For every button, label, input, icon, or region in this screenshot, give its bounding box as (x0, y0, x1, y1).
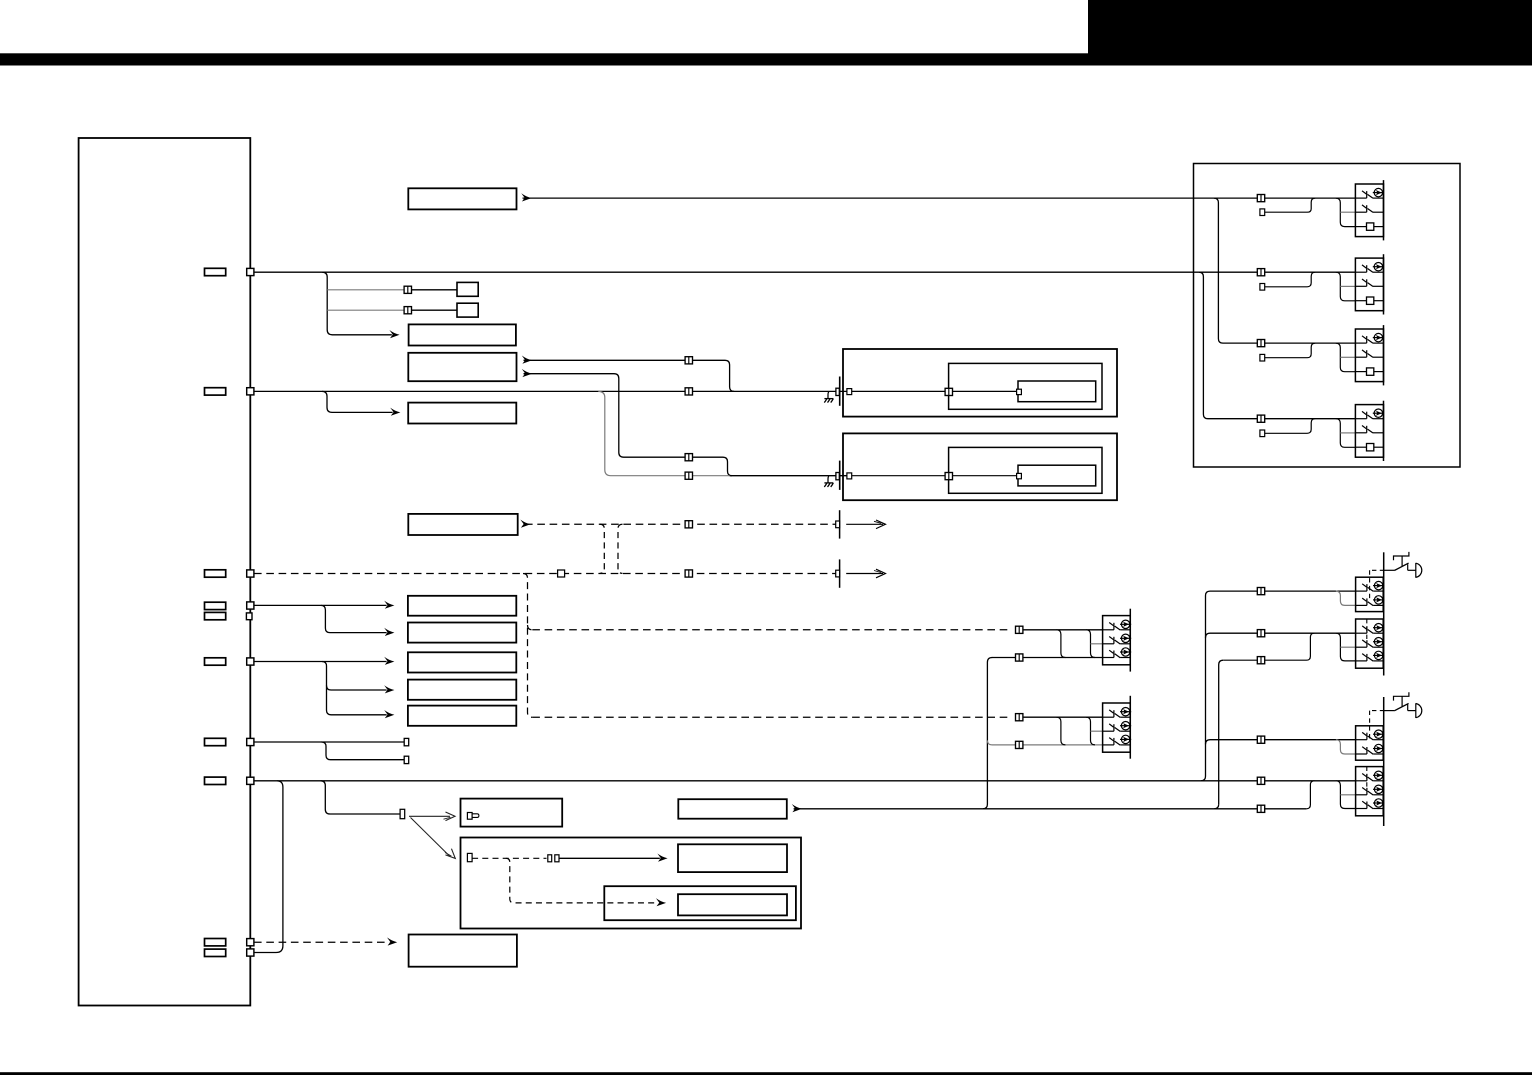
lock switch group S2 (1103, 703, 1132, 752)
connector on dashed y=524 (685, 521, 692, 528)
footer rule (0, 1072, 1532, 1075)
SB dashed link (472, 857, 546, 859)
M2 innermost box (1018, 465, 1096, 486)
callout box B1 (408, 596, 516, 616)
wire to box C (559, 857, 660, 859)
M1 internal wire (852, 390, 1017, 392)
M1 firewall bar (839, 377, 841, 406)
stub connector 7 (400, 809, 405, 818)
M2 internal wire (852, 475, 1017, 477)
M1 outer box (843, 349, 1117, 417)
pin label box 8b (205, 949, 226, 956)
branch drop at x=327 (322, 272, 392, 335)
lock switch group R2 (1356, 619, 1385, 668)
stub wire a (gray) (327, 289, 404, 291)
wire C from K4 (y=373) (524, 374, 686, 458)
M1 innermost pin (1017, 389, 1022, 394)
branch arrow to B4 (322, 662, 387, 691)
pin label box 3 (205, 570, 226, 577)
R3 connector (1257, 736, 1264, 743)
U2 pigtail connector (1260, 284, 1265, 291)
M1 inner box (949, 363, 1102, 409)
SB pin (467, 853, 472, 861)
M1 pin square (847, 389, 852, 395)
pin connector 2 (247, 388, 254, 395)
switch box a (457, 282, 478, 296)
branch from rail to door key cylinder connector (321, 781, 401, 814)
M2 pin square (847, 473, 852, 479)
branch drop of y=391 wire to gray run (598, 391, 729, 475)
dashed tie 1 between y=524 and y=573 (600, 524, 605, 573)
R1 connector (1257, 588, 1264, 595)
branch arrow to B2 (321, 605, 387, 632)
M1 ground (824, 392, 833, 403)
S2 bus bar (1129, 696, 1131, 759)
pin connector 8a (247, 939, 254, 946)
U1 branch to rows 2-3 (1336, 198, 1356, 227)
callout box K3 (408, 403, 516, 424)
box E (409, 935, 517, 967)
box D inner (678, 894, 787, 915)
S1 lower connector (1016, 654, 1023, 661)
pin connector 8b (247, 949, 254, 956)
S2 row1 feed (1023, 716, 1103, 718)
ground return riser x=987 (983, 658, 992, 809)
M2 inner box (949, 447, 1102, 493)
dashed wire from K5 (y=524) (525, 523, 837, 525)
wire: ECU pin1 main (y=272) (254, 271, 1355, 273)
R1 branch to row2 (1336, 591, 1356, 605)
callout box B2 (408, 623, 516, 643)
box A pin + tab (467, 813, 472, 820)
callout box B3 (408, 652, 516, 672)
U2 pigtail wire (1265, 272, 1316, 287)
pin label box 4b (205, 612, 226, 619)
dashed branch arc to y=629.7 (528, 625, 533, 630)
exit arrow y=524 (846, 523, 883, 525)
pin label box 8a (205, 939, 226, 946)
mech link dashes horn1 (1372, 569, 1384, 571)
unit U1 connector (1257, 195, 1264, 202)
lock switch group R4 (1356, 767, 1385, 816)
connector on wire C (685, 454, 692, 461)
M1 bar connector (836, 388, 839, 395)
R4 branch to rows 2-3 (1336, 781, 1356, 809)
R4 return merge from rail (1306, 781, 1314, 809)
connector on y=391 wire (685, 388, 692, 395)
S1 bus bar (1129, 609, 1131, 672)
S1 connector (dashed feed) (1016, 626, 1023, 633)
door lock actuator U2 (1355, 254, 1384, 314)
wire: K1 to door lock unit row (y=198) (523, 197, 1356, 199)
pin connector 6 (247, 738, 254, 745)
wire: connector to switch box a (412, 289, 457, 291)
title banner block (1088, 0, 1532, 54)
R2 connector (1257, 630, 1264, 637)
connector on stub b (404, 307, 411, 314)
key lock switch R3 (1356, 726, 1385, 760)
S1 tie 1 (1056, 630, 1065, 658)
door lock actuator U4 (1355, 401, 1384, 461)
M2 firewall bar (839, 461, 841, 490)
SB link connector halves (548, 855, 552, 862)
wire: ECU pin7 ground rail (y=780.8) (254, 780, 1356, 782)
dashed wire from ECU pin3 (y=573) (254, 573, 837, 575)
M1 inner connector (945, 388, 952, 395)
U3 pigtail connector (1260, 354, 1265, 361)
U4 pigtail wire (1265, 419, 1316, 434)
S2 lower connector (1016, 741, 1023, 748)
S2 tie 1 (1056, 717, 1065, 745)
R1R2 bus bar (1383, 552, 1385, 675)
S1 tie 2 + row2 stub (1086, 630, 1095, 658)
R3R4 bus bar (1383, 697, 1385, 826)
connector on gray run (685, 472, 692, 479)
wire: ECU pin2 (y=391) to module M1 (254, 390, 847, 392)
wire into module M2 (730, 475, 847, 477)
unit U3 connector (1257, 340, 1264, 347)
single connector on dashed y=573 (558, 570, 565, 577)
pin connector 7 (247, 777, 254, 784)
dashed drop at x=527 feeding lock switches (523, 574, 532, 718)
R2 branch to rows 2-3 (1336, 633, 1356, 661)
stub wire b (gray) (327, 309, 404, 311)
R1 main wire (1210, 590, 1356, 592)
connector on dashed y=573 (685, 570, 692, 577)
R4 connector (1257, 777, 1264, 784)
pin connector 4b (246, 613, 252, 620)
R2 return connector (1257, 657, 1264, 664)
bar connector y=573 (836, 570, 840, 577)
wire: connector to switch box b (412, 309, 457, 311)
pin connector 4a (247, 602, 254, 609)
return riser x=1218.7 (1219, 660, 1224, 804)
S2 tie 2 + row2 stub (1086, 717, 1095, 745)
stub connector 6a (404, 738, 409, 745)
link bar on dashed y=573 (839, 559, 841, 587)
riser from ECU pin8b to rail (254, 781, 283, 953)
U1 pigtail connector (1260, 209, 1265, 216)
arrowhead into box K2 (389, 330, 399, 338)
box C (678, 844, 787, 872)
connector on wire A (685, 357, 692, 364)
wire: ECU pin6 (y=742) (254, 741, 404, 743)
mech link dashes horn2 (1372, 710, 1384, 712)
dashed run to switch group S2 (532, 716, 1012, 718)
pin label box 2 (205, 388, 226, 395)
M2 bar connector (836, 473, 839, 480)
stub connector 6b (404, 756, 409, 763)
R3 branch to row2 (1336, 740, 1356, 754)
arrowhead on K1 wire (521, 193, 531, 201)
M2 innermost pin (1017, 473, 1022, 478)
callout box K2 (409, 324, 516, 345)
M2 inner connector (945, 473, 952, 480)
switch box b (457, 303, 478, 317)
pin label box 5 (205, 658, 226, 665)
pin label box 1 (205, 268, 226, 275)
door lock actuator U3 (1355, 325, 1384, 385)
R4 return connector (1257, 805, 1264, 812)
ECU box (79, 138, 251, 1006)
feeder riser x=1205.5 (1201, 591, 1210, 781)
box A (key sub switch) (461, 799, 563, 827)
branch arc to S2 lower wire (987, 740, 992, 745)
dashed tie 2 between y=524 and y=573 (618, 524, 623, 573)
actuator assembly outer box (1194, 164, 1461, 468)
header rule bar (0, 53, 1532, 65)
S1 lower wire (992, 657, 1103, 659)
U1 pigtail wire (1265, 198, 1316, 212)
callout box B4 (408, 680, 516, 700)
SB dashed branch to box D (506, 858, 659, 903)
fan arrow to box SB pin (411, 818, 451, 857)
pin label box 6 (205, 738, 226, 745)
R2 return wire + merge (1223, 633, 1314, 660)
exit arrow y=573 (846, 573, 883, 575)
return rail (y=808.8) from box F (794, 808, 1307, 810)
door lock actuator U1 (1355, 180, 1384, 240)
box D outer (604, 886, 796, 920)
R3 main wire (1210, 739, 1356, 741)
key cylinder + buzzer horn 1 (1384, 552, 1422, 578)
S1 row1 feed (1023, 629, 1103, 631)
mech link dashes R2 (1366, 619, 1368, 641)
branch arrow to box K3 (322, 391, 393, 412)
fan arrow to box A (409, 815, 450, 817)
key cylinder + buzzer horn 2 (1384, 692, 1422, 718)
wire A drop joining y=391 (692, 360, 734, 391)
branch arc to R3 main (1206, 740, 1211, 745)
dashed run to switch group S1 (532, 629, 1012, 631)
pin label box 4a (205, 602, 226, 609)
feed drop to U3 (1214, 198, 1356, 343)
callout box K5 (dashed output) (408, 514, 517, 535)
R2 main wire (1210, 632, 1356, 634)
unit U4 connector (1257, 415, 1264, 422)
U3 pigtail wire (1265, 343, 1316, 358)
mech link dashes R4 (1366, 767, 1368, 789)
M2 outer box (843, 433, 1117, 500)
U4 pigtail connector (1260, 430, 1265, 437)
M1 innermost box (1018, 381, 1096, 402)
wire: ECU pin4 (y=603) (254, 604, 387, 606)
box F (678, 799, 787, 819)
pin connector 1 (247, 268, 254, 275)
U2 branch to rows 2-3 (1336, 272, 1356, 301)
wire A from K4 (y=360) (524, 359, 686, 361)
branch wire 6b (322, 742, 405, 760)
callout box K4 (twin outputs) (408, 353, 516, 381)
key lock switch R1 (1356, 577, 1385, 611)
lock switch group S1 (1103, 616, 1132, 665)
S2 connector (dashed feed) (1016, 714, 1023, 721)
callout box B5 (408, 706, 516, 726)
bar connector y=524 (836, 521, 840, 528)
feed drop to U4 (1199, 272, 1355, 419)
S2 lower wire (992, 744, 1103, 746)
U3 branch to rows 2-3 (1336, 343, 1356, 372)
callout box K1 (door switch feed) (408, 188, 516, 209)
pin connector 3 (247, 570, 254, 577)
pin label box 7 (205, 777, 226, 784)
connector on stub a (404, 286, 411, 293)
branch arc to R2 main (1206, 633, 1211, 638)
link bar on dashed y=524 (839, 510, 841, 538)
branch arrow to B5 (327, 686, 387, 715)
M2 ground (824, 476, 833, 487)
U4 branch to rows 2-3 (1336, 419, 1356, 448)
dashed wire ECU pin8a to box E (254, 941, 389, 943)
wire C drop joining y=475.6 (692, 457, 732, 476)
wire: ECU pin5 (y=661.5) (254, 661, 387, 663)
box SB (switch body) (461, 838, 802, 929)
pin connector 5 (247, 658, 254, 665)
unit U2 connector (1257, 269, 1264, 276)
